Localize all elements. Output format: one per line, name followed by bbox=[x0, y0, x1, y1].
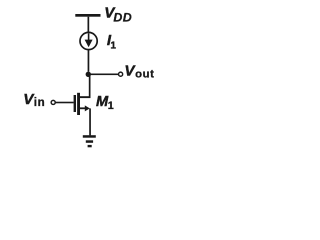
svg-text:1: 1 bbox=[110, 41, 116, 52]
label VDD bbox=[104, 5, 132, 25]
terminal Vout open circle bbox=[119, 72, 123, 76]
label M1 bbox=[96, 94, 114, 112]
wire node to drain of M1 bbox=[89, 74, 91, 97]
node output junction dot bbox=[86, 72, 91, 77]
ground bbox=[83, 135, 96, 147]
label I1 bbox=[107, 32, 117, 52]
svg-text:out: out bbox=[135, 69, 154, 81]
current source I1 bbox=[80, 32, 97, 49]
svg-text:1: 1 bbox=[108, 100, 114, 112]
wire source of M1 to ground bbox=[89, 108, 91, 135]
svg-text:DD: DD bbox=[113, 11, 132, 25]
svg-text:in: in bbox=[34, 96, 46, 109]
transistor M1 bbox=[74, 93, 91, 115]
wire node to Vout terminal bbox=[88, 74, 118, 76]
terminal Vin open circle bbox=[51, 100, 55, 104]
wire current source to output node bbox=[88, 50, 90, 72]
power rail VDD bbox=[75, 14, 100, 17]
label Vout bbox=[124, 63, 154, 81]
wire Vin terminal to gate bbox=[55, 102, 73, 104]
wire VDD rail to current source bbox=[88, 17, 90, 33]
label Vin bbox=[23, 91, 45, 109]
